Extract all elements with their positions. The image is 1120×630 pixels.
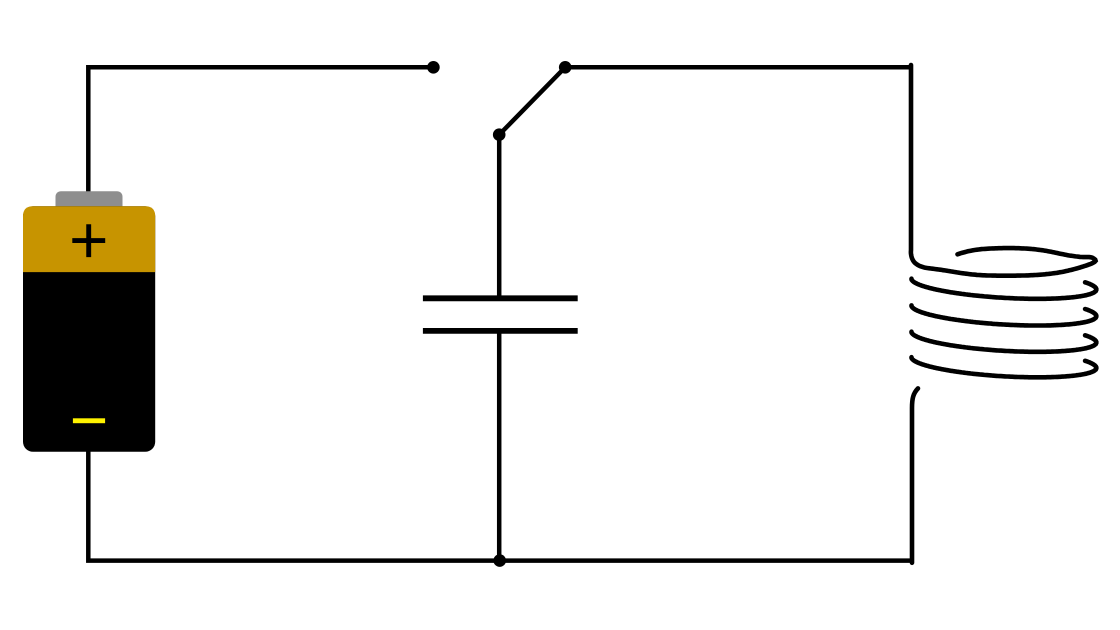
wire switch pole down to capacitor top plate (497, 135, 502, 297)
wire from coil bottom lead down to bottom-right corner (912, 388, 918, 562)
capacitor C1 bottom plate (423, 328, 578, 334)
inductor L1 fifth turn (912, 357, 1097, 377)
battery B1 plus symbol (72, 224, 105, 257)
battery B1 positive (gold) section (23, 206, 155, 272)
switch S1 lever from pole up to right contact (499, 67, 565, 134)
battery B1 minus symbol (73, 418, 105, 423)
switch S1 open contact terminal node (427, 61, 440, 74)
inductor L1 third turn (912, 305, 1097, 325)
battery B1 terminal cap (56, 191, 123, 213)
wire from top-right corner down into coil; inductor L1 first turn (911, 65, 1096, 276)
inductor L1 second turn (912, 279, 1097, 299)
wire from switch right contact across the top to top-right corner (565, 65, 911, 70)
switch S1 right contact node (559, 61, 572, 74)
junction node where capacitor branch meets bottom rail (493, 554, 506, 567)
wire battery negative terminal down to bottom rail across to bottom-right corner (88, 450, 912, 561)
wire capacitor bottom plate down to bottom junction (497, 332, 502, 562)
capacitor C1 top plate (423, 295, 578, 301)
battery B1 body (negative section) (23, 206, 155, 451)
switch S1 pole node (493, 128, 506, 141)
wire battery positive terminal up and across to switch open contact (88, 67, 433, 193)
inductor L1 fourth turn (912, 332, 1097, 352)
